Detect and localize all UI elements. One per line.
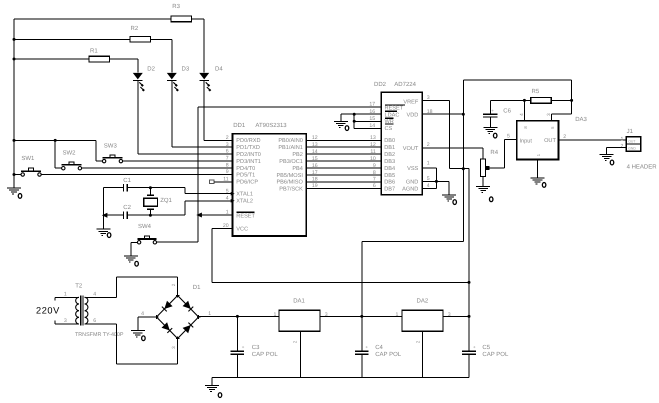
svg-text:10: 10: [370, 156, 376, 162]
svg-text:14: 14: [369, 123, 375, 129]
svg-text:DB4: DB4: [384, 166, 395, 172]
svg-text:XTAL2: XTAL2: [236, 199, 253, 205]
svg-text:C4: C4: [375, 344, 383, 351]
svg-text:OUT: OUT: [544, 138, 556, 144]
svg-text:VSS: VSS: [407, 166, 418, 172]
svg-text:C6: C6: [503, 107, 511, 114]
svg-text:GND: GND: [406, 179, 418, 185]
svg-text:12: 12: [370, 142, 376, 148]
svg-text:D1: D1: [193, 284, 201, 291]
svg-text:CAP POL: CAP POL: [482, 351, 509, 358]
svg-text:DB7: DB7: [384, 186, 395, 192]
svg-text:DB0: DB0: [384, 138, 395, 144]
svg-text:2: 2: [427, 142, 430, 148]
svg-text:RESET: RESET: [236, 213, 255, 219]
svg-text:16: 16: [312, 163, 318, 169]
svg-text:9: 9: [226, 169, 229, 175]
svg-text:15: 15: [312, 156, 318, 162]
svg-text:DB6: DB6: [384, 180, 395, 186]
svg-text:DB5: DB5: [384, 173, 395, 179]
svg-text:DA2: DA2: [417, 297, 429, 304]
svg-text:6: 6: [373, 183, 376, 189]
svg-text:9: 9: [373, 163, 376, 169]
svg-text:DA1: DA1: [293, 297, 305, 304]
svg-text:1: 1: [226, 210, 229, 216]
svg-text:2: 2: [171, 283, 176, 286]
svg-text:+: +: [491, 108, 494, 113]
svg-text:OUT: OUT: [628, 139, 635, 143]
svg-text:PD3/INT1: PD3/INT1: [236, 158, 261, 165]
svg-text:DB3: DB3: [384, 159, 395, 165]
svg-text:DD2: DD2: [374, 81, 387, 88]
svg-text:VDD: VDD: [406, 112, 418, 118]
svg-text:SW1: SW1: [21, 155, 35, 162]
svg-text:6: 6: [226, 149, 229, 155]
svg-text:1: 1: [396, 312, 399, 318]
svg-text:13: 13: [370, 135, 376, 141]
svg-text:17: 17: [369, 102, 375, 108]
svg-text:4: 4: [226, 195, 229, 201]
svg-text:17: 17: [312, 170, 318, 176]
svg-text:3: 3: [546, 113, 551, 116]
svg-text:SW2: SW2: [63, 149, 77, 156]
svg-text:D4: D4: [215, 66, 223, 73]
svg-text:R1: R1: [90, 47, 98, 54]
svg-text:PB0/AIN0: PB0/AIN0: [278, 137, 303, 144]
svg-text:C1: C1: [123, 177, 131, 184]
svg-text:AD7224: AD7224: [394, 81, 416, 88]
svg-text:8: 8: [226, 163, 229, 169]
svg-text:VREF: VREF: [403, 99, 419, 105]
svg-text:4 HEADER: 4 HEADER: [627, 163, 658, 170]
svg-text:2: 2: [416, 340, 421, 343]
svg-text:+: +: [242, 344, 245, 349]
svg-text:4: 4: [93, 291, 96, 297]
svg-text:4: 4: [141, 311, 144, 317]
svg-text:PB5/MOSI: PB5/MOSI: [276, 172, 303, 179]
svg-text:14: 14: [312, 149, 318, 155]
svg-text:5: 5: [507, 133, 510, 139]
svg-text:AGND: AGND: [402, 186, 418, 192]
svg-text:220V: 220V: [36, 306, 60, 316]
svg-text:PB3/OC1: PB3/OC1: [279, 158, 303, 165]
svg-text:R3: R3: [172, 3, 180, 10]
svg-text:ZQ1: ZQ1: [160, 197, 172, 204]
svg-text:4: 4: [519, 113, 524, 116]
svg-text:CAP POL: CAP POL: [252, 351, 279, 358]
svg-text:7: 7: [226, 156, 229, 162]
svg-text:12: 12: [312, 135, 318, 141]
svg-text:C5: C5: [482, 344, 490, 351]
svg-text:R4: R4: [490, 149, 498, 156]
svg-text:PD5/T1: PD5/T1: [236, 171, 255, 178]
svg-text:8: 8: [373, 170, 376, 176]
svg-text:D3: D3: [182, 66, 190, 73]
svg-text:2: 2: [563, 134, 566, 140]
svg-text:SW3: SW3: [104, 143, 118, 150]
svg-text:J1: J1: [627, 128, 634, 135]
svg-text:R5: R5: [532, 88, 540, 95]
svg-text:3: 3: [171, 346, 176, 349]
svg-text:1: 1: [274, 312, 277, 318]
svg-text:C2: C2: [123, 204, 131, 211]
svg-text:2: 2: [226, 135, 229, 141]
svg-text:Input: Input: [520, 138, 533, 144]
svg-text:C3: C3: [252, 344, 260, 351]
svg-text:5: 5: [226, 188, 229, 194]
svg-text:VCC: VCC: [236, 227, 248, 233]
svg-text:GND: GND: [628, 147, 636, 151]
svg-text:+: +: [365, 344, 368, 349]
svg-text:PD1/TXD: PD1/TXD: [236, 144, 260, 151]
svg-text:3: 3: [226, 142, 229, 148]
svg-text:DB1: DB1: [384, 145, 395, 151]
svg-text:CS: CS: [385, 126, 393, 132]
svg-text:VOUT: VOUT: [403, 146, 419, 152]
svg-text:PD6/ICP: PD6/ICP: [236, 179, 258, 186]
svg-text:CAP POL: CAP POL: [375, 351, 402, 358]
svg-text:R2: R2: [131, 25, 139, 32]
svg-text:XTAL1: XTAL1: [236, 192, 253, 198]
svg-text:AT90S2313: AT90S2313: [255, 122, 287, 129]
svg-text:1: 1: [64, 291, 67, 297]
svg-text:PB6/MISO: PB6/MISO: [276, 179, 303, 186]
svg-text:3: 3: [64, 318, 67, 324]
svg-text:D2: D2: [147, 66, 155, 73]
svg-text:6: 6: [93, 318, 96, 324]
svg-text:2: 2: [621, 144, 624, 150]
svg-text:PD4/T0: PD4/T0: [236, 165, 255, 172]
svg-text:PD2/INT0: PD2/INT0: [236, 151, 261, 158]
svg-text:16: 16: [369, 109, 375, 115]
svg-text:13: 13: [312, 142, 318, 148]
svg-text:1: 1: [621, 136, 624, 142]
svg-text:15: 15: [369, 116, 375, 122]
svg-text:DD1: DD1: [233, 122, 246, 129]
svg-text:7: 7: [373, 177, 376, 183]
svg-text:PB4: PB4: [292, 166, 303, 172]
svg-text:18: 18: [312, 177, 318, 183]
svg-text:PB2: PB2: [292, 152, 303, 158]
svg-text:PB1/AIN1: PB1/AIN1: [278, 144, 303, 151]
svg-text:T2: T2: [75, 282, 83, 289]
svg-text:2: 2: [293, 340, 298, 343]
svg-text:19: 19: [312, 183, 318, 189]
svg-text:DA3: DA3: [575, 116, 587, 123]
svg-text:SW4: SW4: [138, 223, 152, 230]
svg-text:DB2: DB2: [384, 152, 395, 158]
svg-text:PB7/SCK: PB7/SCK: [279, 185, 303, 192]
svg-text:PD0/RXD: PD0/RXD: [236, 137, 260, 144]
svg-text:11: 11: [370, 149, 375, 155]
svg-text:+: +: [473, 344, 476, 349]
svg-text:1: 1: [427, 161, 430, 167]
